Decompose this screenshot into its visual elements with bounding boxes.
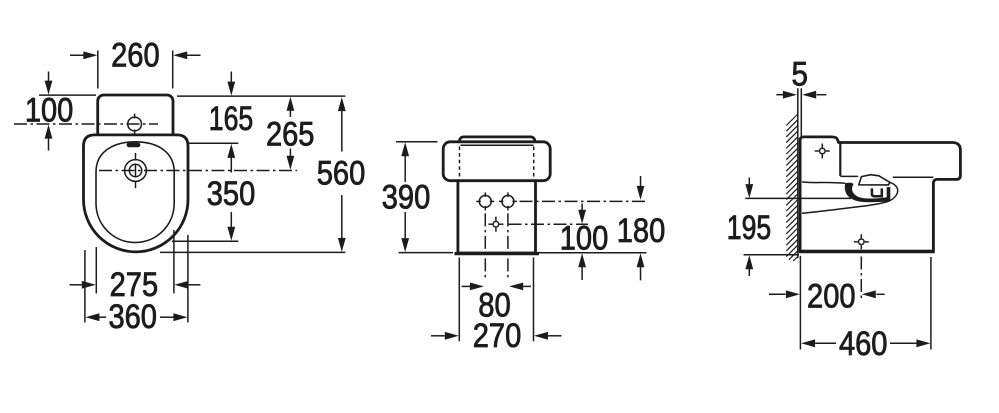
svg-text:265: 265 [266,116,315,154]
svg-text:260: 260 [111,36,160,74]
svg-text:390: 390 [382,179,431,217]
svg-text:350: 350 [207,175,256,213]
svg-text:5: 5 [792,56,809,94]
svg-text:195: 195 [727,209,772,247]
svg-text:270: 270 [473,317,522,355]
svg-text:200: 200 [807,278,856,316]
svg-text:180: 180 [617,212,666,250]
svg-text:100: 100 [25,92,74,130]
svg-text:560: 560 [317,155,366,193]
svg-text:100: 100 [560,220,609,258]
svg-text:165: 165 [209,100,254,138]
svg-text:360: 360 [108,298,157,336]
svg-text:460: 460 [839,325,888,363]
